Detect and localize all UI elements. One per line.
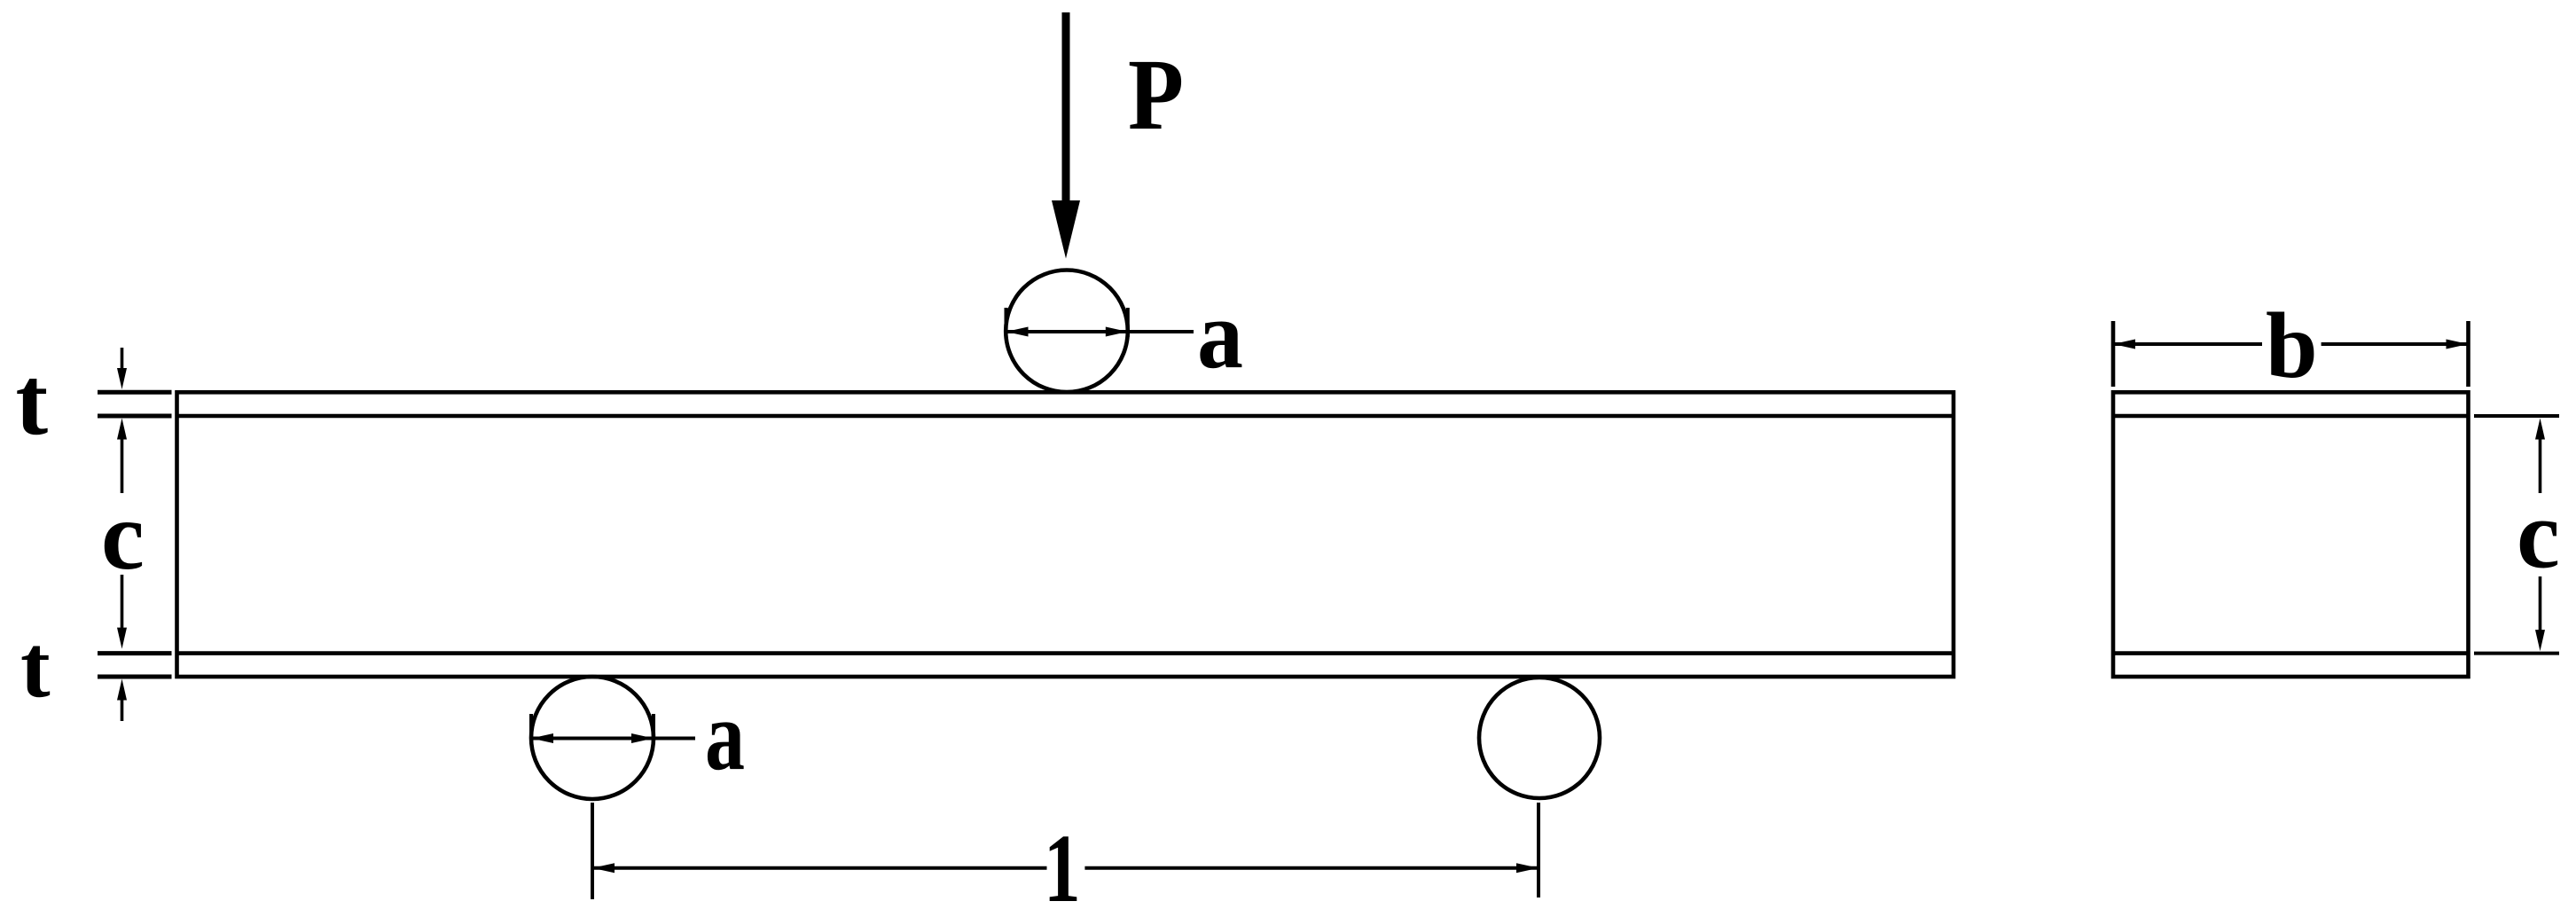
dimension c (left): lower arrowhead bbox=[117, 628, 127, 649]
dimension a (bottom roller): left tick bbox=[529, 714, 533, 744]
extension tick, top face outer bbox=[98, 390, 172, 395]
load arrow P head bbox=[1052, 200, 1080, 259]
dimension c (left): upper shaft bbox=[121, 437, 124, 493]
dimension a (top roller): left arrowhead bbox=[1006, 327, 1029, 337]
dimension c (right): upper shaft bbox=[2539, 437, 2542, 493]
top face sheet inner line bbox=[177, 414, 1954, 419]
dimension c (right): lower arrowhead bbox=[2535, 630, 2545, 651]
dimension b: right line segment bbox=[2322, 342, 2469, 346]
dimension t (top): down arrow shaft bbox=[121, 348, 124, 371]
dimension b: left line segment bbox=[2113, 342, 2262, 346]
svg-text:c: c bbox=[2517, 481, 2560, 589]
span dimension l: right arrowhead bbox=[1516, 863, 1539, 873]
dimension t (top): down arrowhead bbox=[117, 368, 127, 389]
dimension a (top roller): right arrowhead bbox=[1106, 327, 1128, 337]
dimension a (bottom roller): right tick bbox=[652, 714, 655, 744]
svg-text:t: t bbox=[16, 347, 49, 455]
dimension c (right): top extension line bbox=[2474, 414, 2559, 418]
span dimension l: left line segment bbox=[592, 866, 1047, 870]
dimension a (top roller): right tick bbox=[1126, 308, 1130, 337]
svg-text:b: b bbox=[2266, 294, 2318, 397]
dimension t (bottom): up arrowhead bbox=[117, 679, 127, 701]
span dimension l: right line segment bbox=[1084, 866, 1539, 870]
dimension c (right): lower shaft bbox=[2539, 576, 2542, 631]
dimension b: left extension line bbox=[2111, 321, 2116, 387]
bottom face sheet inner line bbox=[177, 651, 1954, 655]
svg-text:1: 1 bbox=[1044, 814, 1081, 917]
top loading roller bbox=[1006, 270, 1128, 393]
dimension a (top roller): left tick bbox=[1005, 308, 1008, 337]
dimension b: left arrowhead bbox=[2113, 340, 2135, 349]
cross-section top face inner line bbox=[2113, 414, 2469, 419]
load arrow P shaft bbox=[1062, 12, 1070, 202]
svg-text:c: c bbox=[101, 482, 145, 590]
dimension b: right extension line bbox=[2466, 321, 2470, 387]
span dimension l: right extension line bbox=[1537, 803, 1540, 897]
dimension b: right arrowhead bbox=[2447, 340, 2469, 349]
svg-text:a: a bbox=[705, 680, 745, 791]
cross-section outline bbox=[2113, 392, 2469, 677]
dimension c (left): lower shaft bbox=[121, 575, 124, 630]
sandwich beam outline (side view) bbox=[177, 392, 1954, 677]
dimension a (bottom roller): right arrowhead bbox=[631, 733, 654, 743]
bottom right support roller bbox=[1479, 678, 1600, 798]
dimension c (right): upper arrowhead bbox=[2535, 419, 2545, 440]
bottom left support roller bbox=[531, 677, 654, 799]
cross-section bottom face inner line bbox=[2113, 651, 2469, 655]
dimension t (bottom): up arrow shaft bbox=[121, 698, 124, 721]
svg-text:t: t bbox=[20, 616, 51, 716]
dimension a (top roller): dimension line bbox=[1006, 330, 1194, 333]
dimension a (bottom roller): left arrowhead bbox=[531, 733, 553, 743]
span dimension l: left arrowhead bbox=[592, 863, 615, 873]
dimension a (bottom roller): dimension line bbox=[531, 737, 695, 741]
extension tick, bottom face outer bbox=[98, 675, 172, 679]
dimension c (left): upper arrowhead bbox=[117, 419, 127, 440]
span dimension l: left extension line bbox=[591, 803, 594, 899]
dimension c (right): bottom extension line bbox=[2474, 652, 2559, 655]
svg-text:P: P bbox=[1128, 38, 1184, 151]
svg-text:a: a bbox=[1197, 279, 1243, 388]
extension tick, bottom face inner bbox=[98, 651, 172, 655]
extension tick, top face inner bbox=[98, 414, 172, 419]
